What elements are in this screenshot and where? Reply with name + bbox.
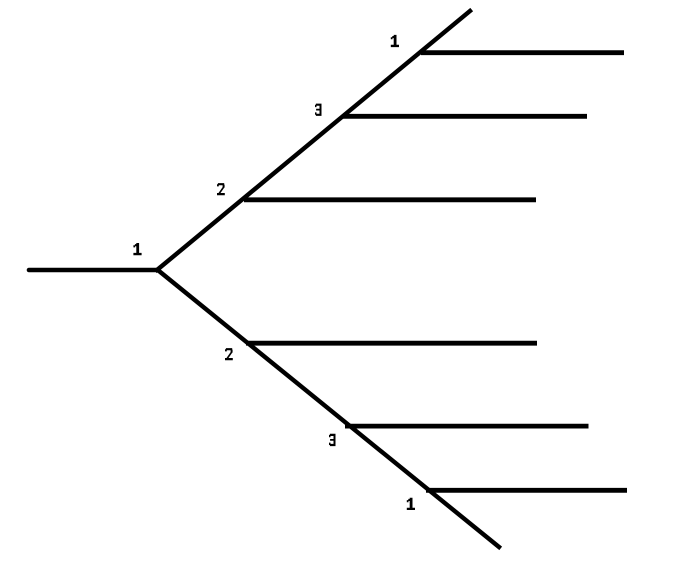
upper branch 1 wire — [421, 50, 624, 55]
lower branch 3 wire — [345, 424, 589, 429]
lower branch 2 wire — [246, 341, 537, 346]
lower branch 1 wire — [426, 488, 627, 493]
node label 1 (root) — [133, 243, 141, 255]
node label 1 (lower) — [407, 498, 415, 510]
upper branch 2 wire — [244, 197, 536, 202]
trunk wire (root edge) — [29, 268, 158, 273]
upper branch 3 wire — [343, 114, 587, 119]
node label 1 (top branch) — [391, 35, 399, 47]
node label 2 (upper) — [217, 183, 225, 195]
node label 3 (upper) — [315, 104, 322, 116]
node label 3 (lower) — [329, 434, 336, 446]
lower diagonal wire — [159, 271, 499, 547]
upper diagonal wire — [157, 11, 470, 270]
node label 2 (lower) — [225, 348, 233, 360]
